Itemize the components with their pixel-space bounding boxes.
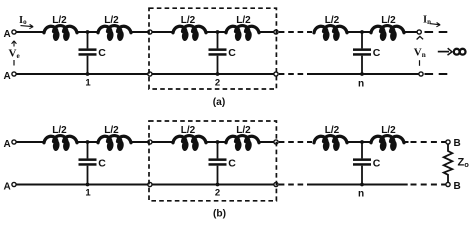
label C of C2 (a) xyxy=(228,47,236,59)
resistor Zo (terminating impedance) xyxy=(444,144,453,182)
wire L3-L4 (b) xyxy=(206,141,226,143)
svg-text:Ve: Ve xyxy=(9,48,20,61)
node junction cap C3 top (b) xyxy=(360,140,364,144)
wire dashed top right to B (b) xyxy=(411,141,446,143)
label L/2 on L1 (b) xyxy=(52,125,67,136)
svg-text:(a): (a) xyxy=(213,97,225,108)
svg-text:A: A xyxy=(4,29,11,40)
wire bottom rail left (a) xyxy=(16,73,148,75)
node junction cap C2 top (b) xyxy=(216,140,220,144)
dashed box section 2 (a) xyxy=(149,8,276,89)
svg-text:n: n xyxy=(358,79,364,90)
caption (b) xyxy=(213,209,226,220)
wire dashed bottom right (a) xyxy=(425,73,448,75)
label L/2 on L5 (b) xyxy=(325,125,340,136)
label Io (input current) with arrow xyxy=(19,15,33,29)
svg-text:Zo: Zo xyxy=(458,157,470,170)
wire L4 to box right (a) xyxy=(259,31,274,33)
terminal box right bottom (a) xyxy=(274,72,278,76)
inductor L4 L/2 (b) xyxy=(226,136,259,152)
inductor L5 L/2 (b) xyxy=(314,136,347,152)
terminal A bottom-left (b) xyxy=(4,182,17,193)
terminal B top xyxy=(446,138,461,149)
svg-text:2: 2 xyxy=(215,188,220,199)
wire L6 short lead (b) xyxy=(404,141,409,143)
svg-text:1: 1 xyxy=(85,188,91,199)
node junction C1 bottom / node 1 (b) xyxy=(85,183,91,199)
inductor L6 L/2 (b) xyxy=(371,136,404,152)
svg-text:C: C xyxy=(373,47,381,59)
inductor L4 L/2 (a) xyxy=(226,26,259,42)
label L/2 on L4 (a) xyxy=(236,15,251,26)
wire top lead (b) xyxy=(16,141,44,143)
terminal box left top (a) xyxy=(148,30,152,34)
svg-text:A: A xyxy=(4,139,11,150)
capacitor C1 (a) xyxy=(79,32,97,74)
wire dashed bottom middle (b) xyxy=(279,184,310,186)
terminal A top-left (a) xyxy=(4,29,17,40)
wire box to L3 (a) xyxy=(152,31,173,33)
svg-text:A: A xyxy=(4,71,11,82)
wire bottom rail left (b) xyxy=(16,184,148,186)
wire bottom rail in box (a) xyxy=(152,73,274,75)
terminal box left bottom (a) xyxy=(148,72,152,76)
label C of C3 (b) xyxy=(373,157,381,169)
inductor L2 L/2 (a) xyxy=(98,26,131,42)
wire bottom rail in box (b) xyxy=(152,184,274,186)
inductor L1 L/2 (a) xyxy=(44,26,77,42)
svg-text:Vn: Vn xyxy=(414,47,426,60)
dashed box section 2 (b) xyxy=(149,121,276,201)
svg-text:C: C xyxy=(98,157,106,169)
wire dashed continuation top middle (a) xyxy=(279,31,312,33)
node junction C3 bottom / node n (a) xyxy=(358,72,364,89)
inductor L5 L/2 (a) xyxy=(314,26,347,42)
label L/2 on L2 (a) xyxy=(104,15,119,26)
svg-text:(b): (b) xyxy=(213,209,226,220)
svg-text:1: 1 xyxy=(85,78,91,89)
terminal box left top (b) xyxy=(148,140,152,144)
terminal B bottom xyxy=(446,181,461,192)
inductor L2 L/2 (b) xyxy=(98,136,131,152)
inductor L6 L/2 (a) xyxy=(371,26,404,42)
wire dashed bottom right to B (b) xyxy=(411,184,446,186)
label Vn (output voltage) xyxy=(414,47,426,66)
wire dashed top right (a) xyxy=(425,31,448,33)
svg-text:A: A xyxy=(4,182,11,193)
caption (a) xyxy=(213,97,225,108)
label C of C1 (a) xyxy=(98,47,106,59)
capacitor C3 (a) xyxy=(353,32,371,74)
inductor L1 L/2 (b) xyxy=(44,136,77,152)
label Ve (source voltage) with up arrow xyxy=(9,41,20,66)
wire L1-L2 (a) xyxy=(77,31,98,33)
label L/2 on L5 (a) xyxy=(325,15,340,26)
node junction C1 bottom / node 1 (a) xyxy=(85,72,91,88)
node junction cap C3 top (a) xyxy=(360,30,364,34)
wire L4 to box right (b) xyxy=(259,141,274,143)
node junction cap C1 top (a) xyxy=(86,30,90,34)
label L/2 on L6 (a) xyxy=(381,15,396,26)
capacitor C3 (b) xyxy=(353,142,371,185)
wire L6 to output (a) xyxy=(404,31,417,33)
caret mark below output terminal (a) xyxy=(417,36,424,39)
wire top lead (a) xyxy=(16,31,44,33)
svg-text:Io: Io xyxy=(19,15,27,26)
wire L1-L2 (b) xyxy=(77,141,98,143)
node junction C3 bottom / node n (b) xyxy=(358,183,364,200)
capacitor C2 (a) xyxy=(209,32,227,74)
node junction C2 bottom / node 2 (b) xyxy=(215,183,220,199)
node junction cap C2 top (a) xyxy=(216,30,220,34)
label C of C1 (b) xyxy=(98,157,106,169)
wire dashed bottom middle (a) xyxy=(279,73,310,75)
label C of C2 (b) xyxy=(228,157,236,169)
wire L3-L4 (a) xyxy=(206,31,226,33)
svg-text:C: C xyxy=(373,157,381,169)
svg-text:C: C xyxy=(228,157,236,169)
label L/2 on L2 (b) xyxy=(104,125,119,136)
terminal output bottom (a) xyxy=(419,72,423,76)
terminal box right top (b) xyxy=(274,140,278,144)
capacitor C2 (b) xyxy=(209,142,227,185)
node junction cap C1 top (b) xyxy=(86,140,90,144)
inductor L3 L/2 (a) xyxy=(173,26,206,42)
wire bottom rail right (a) xyxy=(310,73,419,75)
terminal box right bottom (b) xyxy=(274,182,278,186)
wire box to L3 (b) xyxy=(152,141,173,143)
svg-text:C: C xyxy=(98,47,106,59)
wire L2 to box (b) xyxy=(131,141,148,143)
terminal box right top (a) xyxy=(274,30,278,34)
terminal box left bottom (b) xyxy=(148,182,152,186)
label n tends to infinity xyxy=(438,48,466,55)
label C of C3 (a) xyxy=(373,47,381,59)
inductor L3 L/2 (b) xyxy=(173,136,206,152)
wire L5-L6 (b) xyxy=(347,141,371,143)
label L/2 on L6 (b) xyxy=(381,125,396,136)
label L/2 on L3 (b) xyxy=(181,125,196,136)
terminal A top-left (b) xyxy=(4,139,17,150)
svg-text:B: B xyxy=(454,138,461,149)
node junction C2 bottom / node 2 (a) xyxy=(215,72,220,88)
svg-text:C: C xyxy=(228,47,236,59)
label In (output current) with arrow xyxy=(423,15,440,27)
capacitor C1 (b) xyxy=(79,142,97,185)
wire L2 to box (a) xyxy=(131,31,148,33)
terminal output top (a) xyxy=(417,30,421,34)
label L/2 on L1 (a) xyxy=(52,15,67,26)
label L/2 on L3 (a) xyxy=(181,15,196,26)
wire L5-L6 (a) xyxy=(347,31,371,33)
svg-text:2: 2 xyxy=(215,78,220,89)
label L/2 on L4 (b) xyxy=(236,125,251,136)
svg-text:n: n xyxy=(358,189,364,200)
wire dashed continuation top middle (b) xyxy=(279,141,312,143)
terminal A bottom-left (a) xyxy=(4,71,17,82)
label Zo xyxy=(458,157,470,170)
wire bottom rail right (b) xyxy=(310,184,408,186)
svg-text:B: B xyxy=(454,181,461,192)
